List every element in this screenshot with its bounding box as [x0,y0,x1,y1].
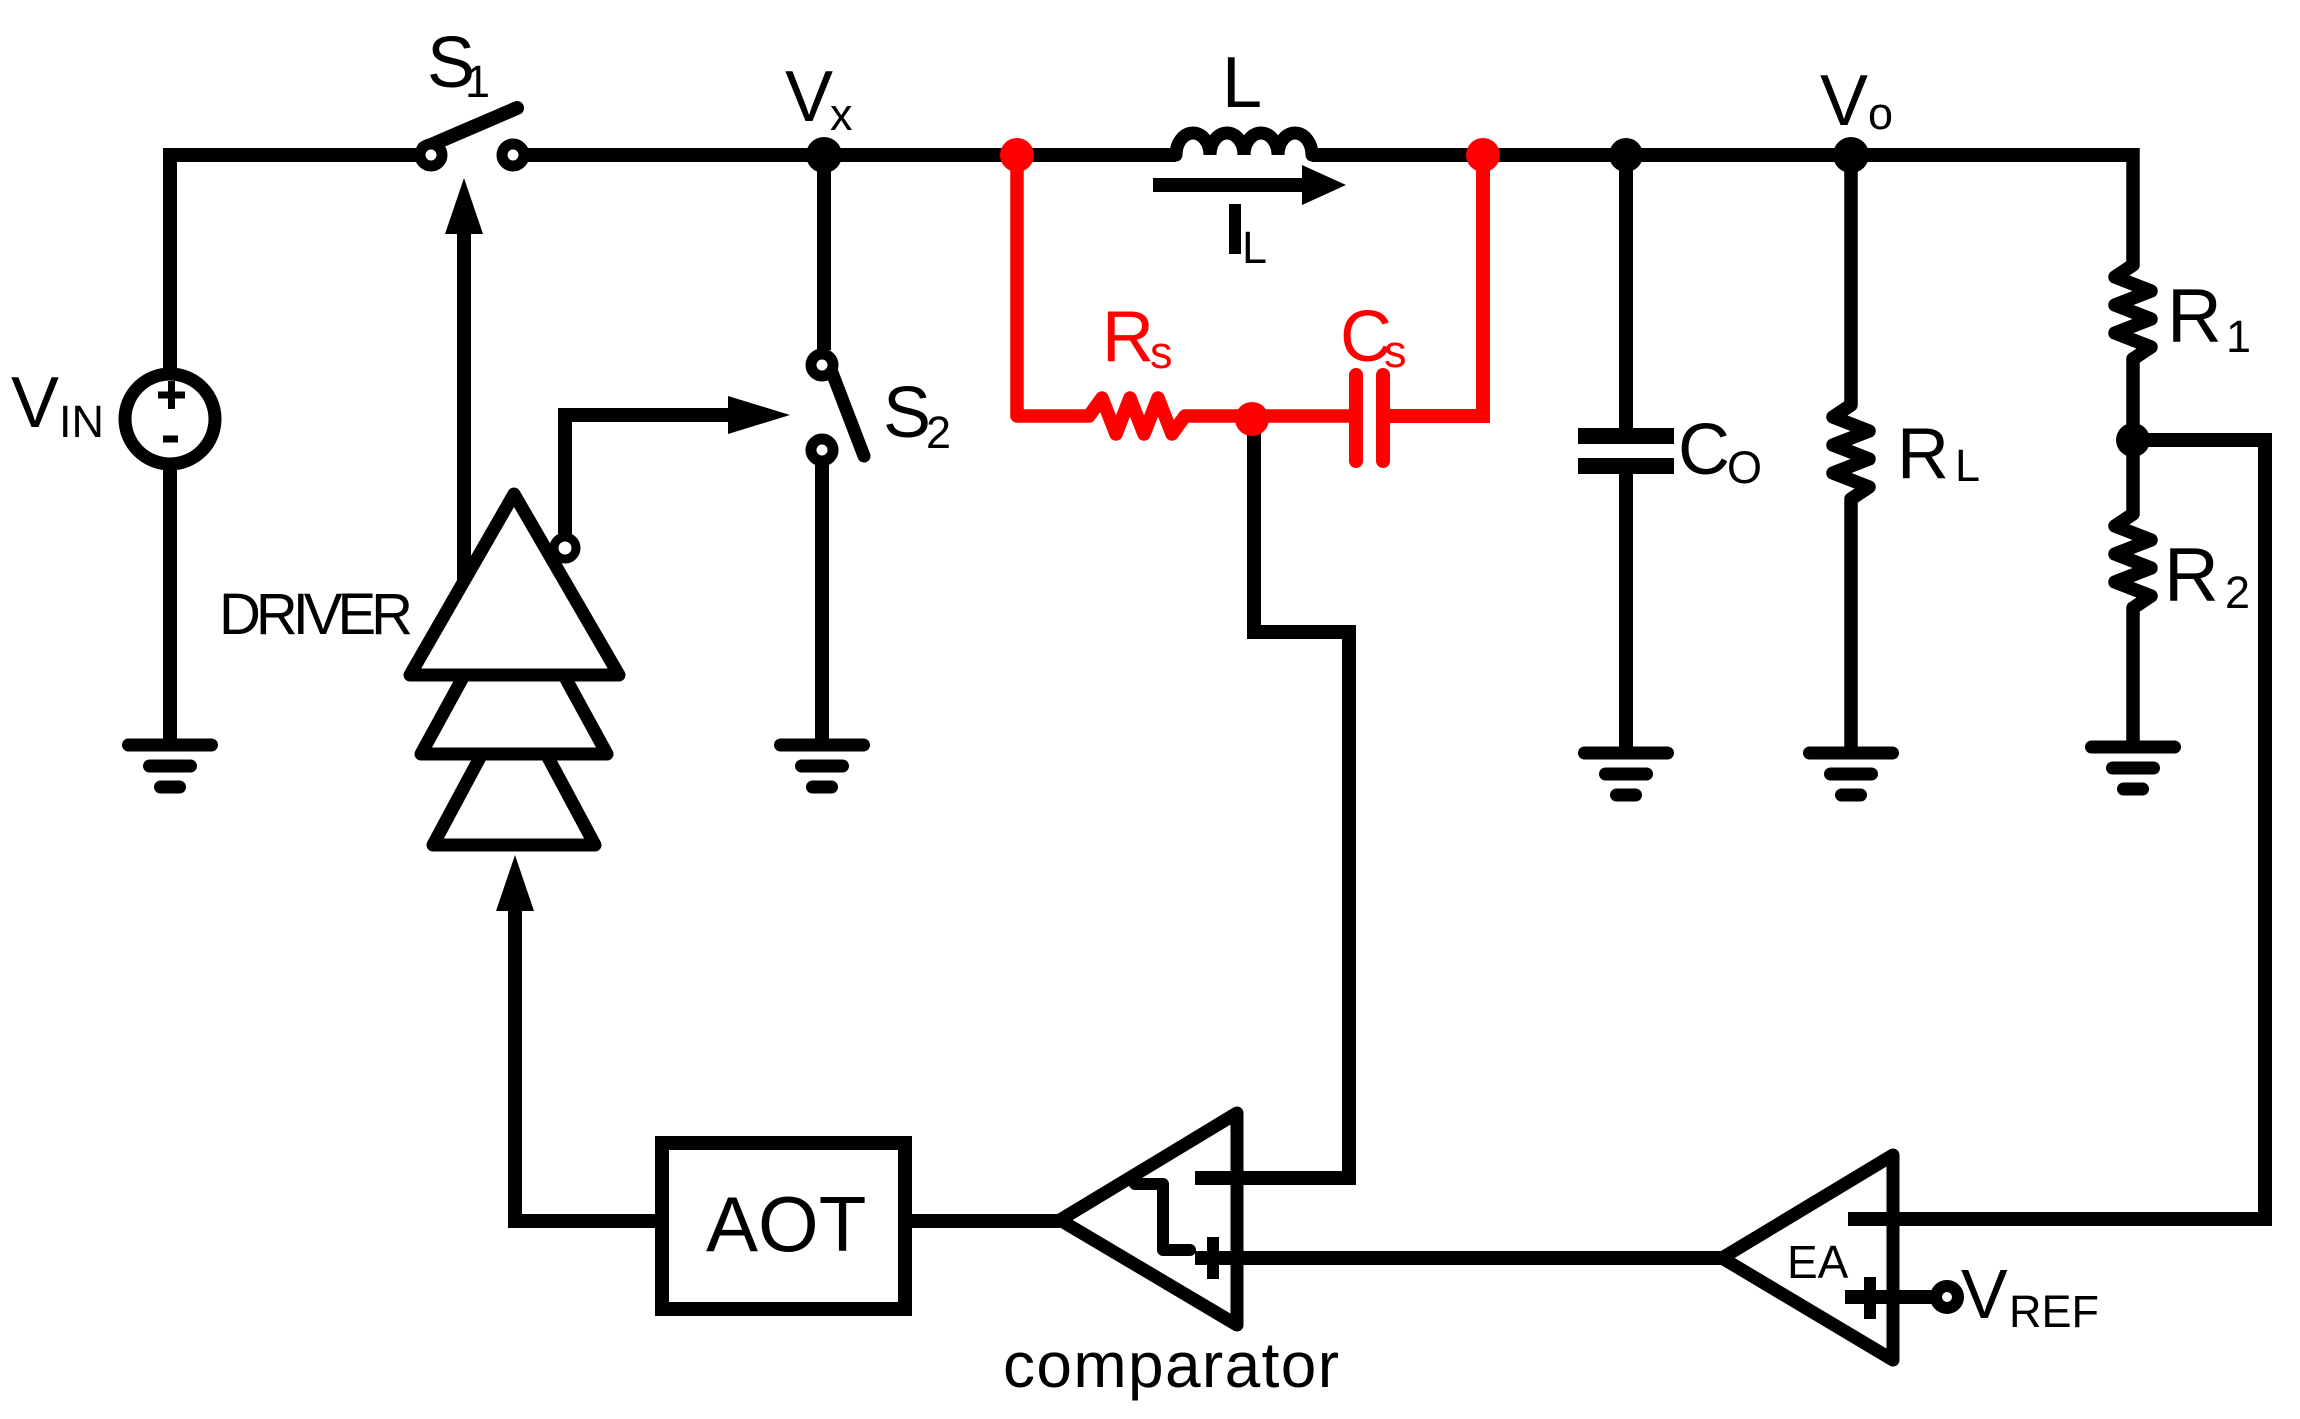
svg-text:C: C [1678,410,1730,490]
svg-text:1: 1 [2226,311,2251,362]
svg-text:L: L [1955,440,1980,491]
svg-text:REF: REF [2009,1286,2099,1337]
svg-text:R: R [1897,414,1949,494]
svg-text:R: R [2164,533,2219,618]
svg-text:V: V [1961,1255,2008,1333]
svg-text:V: V [1820,61,1868,141]
svg-text:R: R [1102,297,1154,377]
svg-text:AOT: AOT [706,1180,866,1268]
svg-text:EA: EA [1787,1236,1849,1288]
svg-text:R: R [2167,274,2222,359]
svg-text:x: x [830,89,853,140]
svg-text:DRIVER: DRIVER [219,582,413,647]
svg-text:comparator: comparator [1003,1329,1339,1401]
svg-text:o: o [1868,88,1893,139]
svg-text:2: 2 [2225,567,2250,618]
svg-text:O: O [1727,442,1762,493]
svg-text:L: L [1222,43,1262,123]
svg-text:1: 1 [465,56,490,107]
svg-text:V: V [785,57,833,137]
svg-text:2: 2 [926,407,951,458]
svg-text:IN: IN [59,396,104,447]
svg-text:L: L [1242,222,1267,273]
svg-text:S: S [883,373,931,453]
svg-text:s: s [1150,327,1173,378]
svg-text:s: s [1384,326,1407,377]
svg-text:V: V [11,363,59,443]
